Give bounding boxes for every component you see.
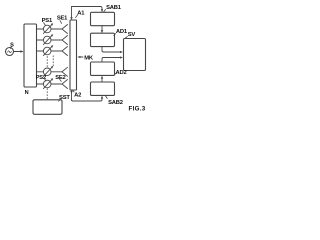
svg-text:AD2: AD2 <box>116 70 127 76</box>
wire SAB2 to AD2 <box>101 78 103 82</box>
arrowhead into AD2 <box>101 76 103 79</box>
label SV leader tick <box>125 36 128 38</box>
variable arrow ch4 <box>43 67 52 76</box>
source S circle <box>6 48 14 56</box>
svg-text:SAB1: SAB1 <box>106 5 122 11</box>
label SST leader tick <box>59 99 61 101</box>
wire N to PS circle ch1 <box>37 28 44 30</box>
MK label arrow <box>79 56 83 58</box>
network box N <box>24 24 37 87</box>
phase shifter circle ch4 <box>43 68 51 76</box>
wire PS to antenna ch3 <box>51 50 62 52</box>
variable arrow ch5 <box>43 79 52 88</box>
ellipsis dashed line right <box>52 56 54 66</box>
arrowhead into SV <box>120 51 123 53</box>
svg-text:A1: A1 <box>77 10 85 16</box>
wire PS to antenna ch5 <box>51 83 62 85</box>
wire SAB1 to AD1 <box>101 26 103 32</box>
ellipsis dashed line left <box>46 57 48 68</box>
antenna element fork ch2 <box>62 36 68 45</box>
wire A1 to SAB1 <box>72 7 103 11</box>
wire AD1 to SV <box>102 47 121 52</box>
label S leader <box>10 47 11 49</box>
label SAB1 leader tick <box>104 9 106 12</box>
converter AD1 box <box>91 33 115 46</box>
arrowhead into N <box>20 50 23 52</box>
phase shifter PS2 circle ch5 <box>43 80 51 88</box>
control unit SST box <box>33 100 62 115</box>
label AD2 leader tick <box>114 73 116 75</box>
antenna element SE1 fork ch1 <box>62 25 68 34</box>
label A1 leader tick <box>76 15 78 18</box>
svg-text:AD1: AD1 <box>116 29 128 35</box>
svg-text:PS1: PS1 <box>42 18 53 24</box>
antenna element fork ch4 <box>62 67 68 76</box>
svg-text:SST: SST <box>59 95 70 101</box>
label AD1 leader tick <box>114 34 116 36</box>
wire A2 to SAB2 <box>72 97 103 101</box>
label SAB2 leader tick <box>106 96 108 98</box>
PS1 variable arrow ch1 <box>43 24 52 33</box>
wire N to PS circle ch3 <box>37 50 44 52</box>
wire PS to antenna ch1 <box>51 28 62 30</box>
svg-text:SE1: SE1 <box>57 16 68 22</box>
label A2 leader tick <box>73 90 75 92</box>
converter AD2 box <box>91 62 115 75</box>
label SE1 leader tick <box>60 21 62 24</box>
svg-text:SE2: SE2 <box>55 75 65 81</box>
label SE2 leader tick <box>60 79 62 81</box>
wire AD2 to SV <box>102 58 121 62</box>
svg-text:SV: SV <box>128 32 136 38</box>
wire N to PS circle ch4 <box>37 71 44 73</box>
phase shifter circle ch3 <box>43 47 51 55</box>
antenna A2 feed wire <box>71 90 73 101</box>
variable arrow ch2 <box>43 35 52 44</box>
arrowhead into SAB1 <box>101 9 103 12</box>
antenna element fork ch3 <box>62 47 68 56</box>
variable arrow ch3 <box>43 46 52 55</box>
label PS1 leader tick <box>44 23 46 25</box>
receiver SAB1 box <box>91 12 115 25</box>
phase shifter PS1 circle ch1 <box>43 25 51 33</box>
label PS2 leader tick <box>45 79 46 81</box>
arrowhead into AD1 <box>101 30 103 33</box>
wire source to network N <box>14 51 22 53</box>
antenna element SE2 fork ch5 <box>62 80 68 89</box>
svg-text:A2: A2 <box>74 92 81 98</box>
wire PS to antenna ch4 <box>51 71 62 73</box>
measuring chamber MK <box>70 20 77 90</box>
dashed control line PS2 to SST <box>46 89 48 100</box>
receiver SAB2 box <box>91 82 115 95</box>
source S inner sine symbol <box>8 51 12 53</box>
arrowhead into SAB2 bottom <box>101 96 103 99</box>
wire N to PS circle ch5 <box>37 83 44 85</box>
antenna A1 arrowhead <box>70 17 72 20</box>
wire PS to antenna ch2 <box>51 39 62 41</box>
antenna A1 feed wire <box>71 7 73 19</box>
phase shifter circle ch2 <box>43 36 51 44</box>
svg-text:PS2: PS2 <box>36 75 46 81</box>
signal processor SV box <box>124 39 146 71</box>
svg-text:N: N <box>25 90 29 96</box>
arrowhead into SV lower <box>120 56 123 58</box>
antenna A2 arrowhead <box>70 91 72 94</box>
svg-text:SAB2: SAB2 <box>108 100 123 106</box>
svg-text:S: S <box>10 42 14 48</box>
wire N to PS circle ch2 <box>37 39 44 41</box>
svg-text:MK: MK <box>84 55 94 61</box>
svg-text:FIG.3: FIG.3 <box>129 106 146 113</box>
